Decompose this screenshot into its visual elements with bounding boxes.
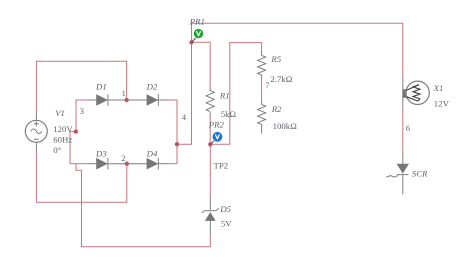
svg-text:D2: D2 (146, 82, 158, 92)
wire V1 bottom to node 2 (36, 151, 126, 202)
wire SCR anode lead gray (402, 152, 404, 164)
wire lamp to SCR red (402, 110, 404, 152)
svg-text:V1: V1 (55, 108, 65, 118)
wire V1 top to node 1 (36, 61, 126, 111)
wire top rail right red (167, 99, 177, 101)
wire V1 top lead gray (35, 112, 37, 121)
zener diode D5 (202, 208, 219, 221)
junction PR1 (189, 40, 193, 44)
svg-text:PR1: PR1 (189, 16, 205, 26)
svg-text:0°: 0° (53, 145, 61, 155)
diode D2 (147, 94, 167, 106)
source V1 (25, 120, 47, 142)
svg-text:6: 6 (406, 124, 410, 133)
wire top rail D1 lead (88, 99, 97, 101)
svg-text:4: 4 (182, 113, 187, 122)
diode D4 (147, 158, 167, 170)
resistor R5 (258, 52, 266, 79)
wire D5 bottom lead gray (209, 221, 211, 235)
svg-text:R2: R2 (271, 104, 282, 114)
diode D1 (96, 94, 126, 106)
wire top rail mid lead (127, 99, 147, 101)
lamp X1 (403, 81, 430, 104)
wire lamp region gray (402, 75, 404, 110)
junction PR2 (208, 142, 212, 146)
svg-text:SCR: SCR (412, 169, 428, 179)
wire R1 bottom to PR2 junction (209, 117, 211, 144)
wire top rail left red (76, 99, 88, 101)
wire bottom rail mid lead (127, 163, 147, 165)
wire node4 to top rail and lamp (177, 23, 403, 144)
resistor R1 (206, 87, 214, 118)
svg-text:D3: D3 (95, 148, 107, 158)
resistor R2 (258, 100, 266, 134)
svg-text:60Hz: 60Hz (53, 135, 72, 145)
wire node 7 (261, 79, 263, 100)
junction node 2 (125, 162, 129, 166)
wire PR2 junction down to D5 (209, 144, 211, 197)
svg-text:D1: D1 (95, 82, 107, 92)
junction node 3 (74, 129, 78, 133)
svg-text:R5: R5 (270, 54, 281, 64)
svg-text:5V: 5V (221, 218, 232, 228)
svg-text:TP2: TP2 (214, 161, 229, 171)
svg-text:7: 7 (265, 81, 269, 90)
wire left rail (75, 100, 77, 132)
wire left rail jog to bottom rail (70, 132, 76, 164)
svg-text:D5: D5 (219, 204, 231, 214)
svg-text:X1: X1 (433, 83, 444, 93)
junction node 1 (124, 98, 128, 102)
probe PR1 (192, 29, 204, 42)
wire right rail (176, 100, 178, 164)
svg-text:5kΩ: 5kΩ (221, 109, 237, 119)
svg-text:2: 2 (121, 154, 125, 163)
wire D5 bottom to bridge bottom-left (76, 164, 210, 247)
wire PR1 junction to R1 (192, 42, 211, 86)
svg-text:3: 3 (80, 107, 84, 116)
junction node 4 (175, 142, 179, 146)
diode D3 (96, 158, 127, 170)
svg-text:R1: R1 (219, 91, 230, 101)
SCR (386, 164, 409, 195)
svg-text:120V: 120V (53, 124, 73, 134)
svg-text:PR2: PR2 (208, 119, 225, 129)
wire bottom rail left red (76, 163, 88, 165)
svg-text:12V: 12V (434, 98, 450, 108)
wire bottom rail D3 lead (88, 163, 97, 165)
probe PR2 (210, 132, 222, 144)
wire V1 bottom lead gray (35, 142, 37, 151)
svg-text:100kΩ: 100kΩ (273, 121, 298, 131)
svg-text:2.7kΩ: 2.7kΩ (270, 74, 292, 84)
svg-text:D4: D4 (146, 148, 158, 158)
wire PR2 junction loop to R5 (210, 43, 261, 145)
wire bottom rail right red (167, 163, 177, 165)
svg-text:1: 1 (122, 89, 126, 98)
